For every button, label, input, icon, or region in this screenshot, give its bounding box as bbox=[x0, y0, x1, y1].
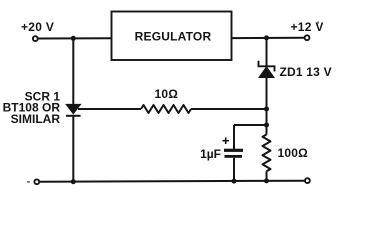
node junction cap branch bbox=[264, 123, 269, 128]
wire bottom rail bbox=[39, 181, 305, 182]
wire cap stub top bbox=[233, 125, 235, 149]
terminal +12V bbox=[305, 35, 310, 40]
wire cap branch horizontal bbox=[234, 124, 267, 126]
terminal +20V bbox=[33, 36, 38, 41]
terminal bottom-right bbox=[305, 178, 310, 183]
svg-text:100Ω: 100Ω bbox=[278, 146, 309, 160]
svg-text:1µF: 1µF bbox=[200, 147, 221, 161]
node junction bottom cap bbox=[232, 179, 237, 184]
wire top-left bbox=[38, 37, 111, 39]
capacitor C1 1uF bbox=[224, 149, 243, 158]
node junction bottom resistor bbox=[264, 178, 269, 183]
wire top-right bbox=[232, 37, 305, 39]
node junction mid-right bbox=[264, 107, 269, 112]
resistor R 100ohm bbox=[263, 135, 271, 172]
wire SCR cathode bbox=[72, 116, 74, 182]
wire zener top bbox=[266, 38, 268, 66]
svg-text:10Ω: 10Ω bbox=[155, 87, 179, 101]
wire cap stub bottom bbox=[233, 158, 235, 181]
resistor R 10ohm bbox=[141, 105, 191, 113]
regulator U1 bbox=[112, 12, 232, 61]
svg-text:+20 V: +20 V bbox=[21, 20, 54, 34]
speck artifact after +12 label bbox=[317, 22, 319, 24]
wire gate to resistor bbox=[78, 108, 141, 110]
polarity plus sign bbox=[222, 137, 229, 144]
wire resistor to node bbox=[191, 108, 267, 110]
zener diode ZD1 bbox=[259, 61, 275, 78]
node junction top-right bbox=[264, 35, 269, 40]
wire SCR anode bbox=[72, 38, 74, 104]
node junction top-left bbox=[71, 36, 76, 41]
node junction bottom SCR bbox=[71, 179, 76, 184]
wire resistor bottom bbox=[266, 171, 268, 181]
svg-text:ZD1 13 V: ZD1 13 V bbox=[280, 65, 332, 79]
wire zener bottom to node bbox=[266, 78, 268, 135]
terminal bottom-left bbox=[34, 179, 39, 184]
svg-text:SIMILAR: SIMILAR bbox=[11, 112, 61, 126]
SCR 1 thyristor bbox=[66, 104, 81, 115]
svg-text:REGULATOR: REGULATOR bbox=[135, 30, 212, 44]
speck artifact near bottom-left terminal bbox=[27, 181, 30, 182]
